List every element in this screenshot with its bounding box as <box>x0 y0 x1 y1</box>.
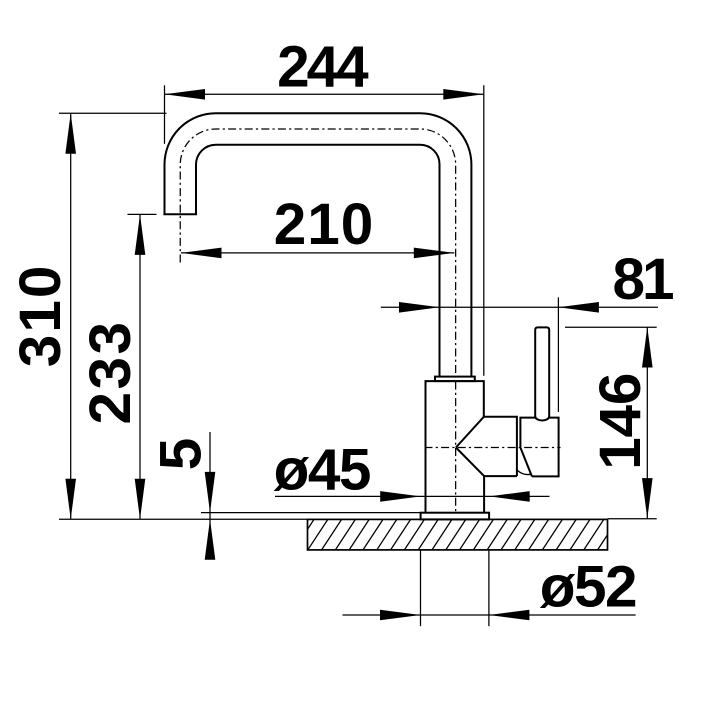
spout outlet mouth <box>163 213 197 215</box>
svg-text:146: 146 <box>588 373 653 470</box>
valve cap <box>520 418 558 477</box>
svg-text:ø52: ø52 <box>540 555 636 620</box>
base flange <box>421 513 490 520</box>
spout centerline (dash-dot) <box>180 129 455 517</box>
svg-text:81: 81 <box>612 247 673 312</box>
spout outer contour <box>165 113 472 376</box>
countertop slab with hatching <box>294 519 618 550</box>
svg-text:ø45: ø45 <box>274 438 370 503</box>
dimension ø45 <box>274 438 550 503</box>
body column outline <box>426 381 517 513</box>
lever swing arc <box>517 470 530 475</box>
svg-text:244: 244 <box>277 35 369 100</box>
svg-text:210: 210 <box>274 192 375 257</box>
svg-text:310: 310 <box>8 264 73 368</box>
lever handle <box>535 327 549 420</box>
dimension ø52 <box>343 550 637 626</box>
dimension 81 <box>381 247 673 412</box>
dimension 233 <box>78 214 157 519</box>
svg-text:233: 233 <box>78 319 143 424</box>
svg-text:5: 5 <box>149 438 214 471</box>
collar under tube <box>435 377 475 382</box>
body cone diagonals <box>456 417 484 476</box>
dimension 210 <box>181 192 454 258</box>
dimension 146 <box>565 327 657 519</box>
dimension 310 <box>8 113 167 519</box>
dimension 5 <box>149 432 421 560</box>
counter surface extension line (left) <box>59 518 308 520</box>
valve horizontal centerline <box>425 447 561 449</box>
dimension 244 <box>165 35 484 376</box>
